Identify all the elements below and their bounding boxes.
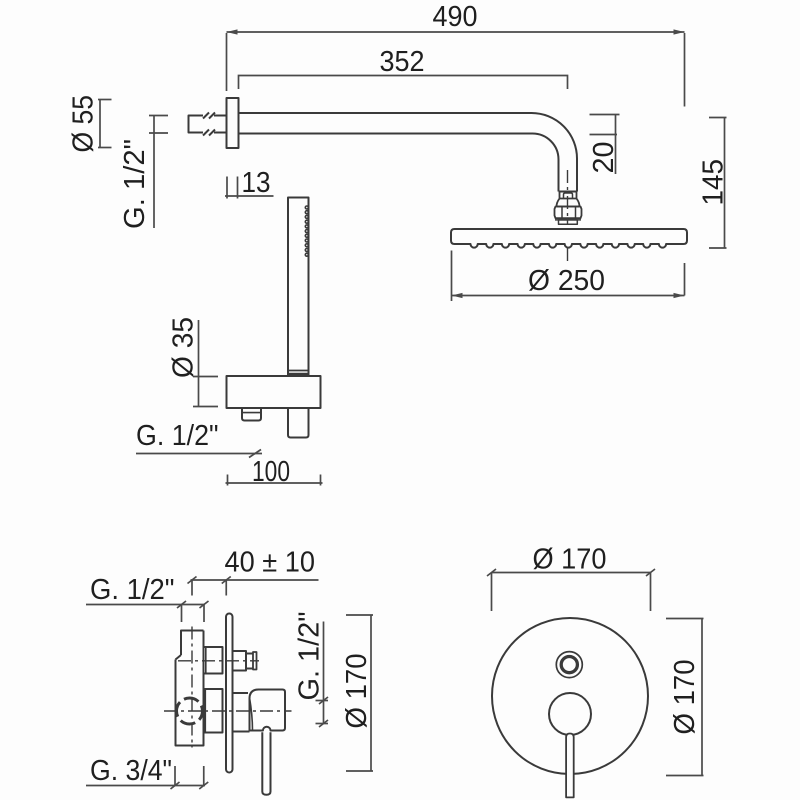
svg-text:Ø 55: Ø 55 bbox=[68, 95, 100, 153]
svg-text:G. 1/2": G. 1/2" bbox=[294, 612, 326, 701]
svg-text:Ø 170: Ø 170 bbox=[341, 654, 373, 729]
svg-text:Ø 250: Ø 250 bbox=[528, 265, 605, 297]
svg-text:G. 1/2": G. 1/2" bbox=[136, 420, 219, 452]
svg-text:490: 490 bbox=[433, 1, 478, 33]
svg-text:G. 1/2": G. 1/2" bbox=[90, 574, 175, 606]
svg-text:13: 13 bbox=[242, 167, 271, 199]
svg-text:Ø 35: Ø 35 bbox=[168, 317, 200, 378]
svg-text:Ø 170: Ø 170 bbox=[669, 660, 701, 735]
svg-text:G. 1/2": G. 1/2" bbox=[119, 139, 151, 229]
svg-text:G. 3/4": G. 3/4" bbox=[90, 755, 172, 787]
svg-text:Ø 170: Ø 170 bbox=[533, 544, 607, 576]
svg-text:145: 145 bbox=[698, 159, 730, 206]
svg-text:40 ± 10: 40 ± 10 bbox=[225, 547, 316, 579]
svg-text:100: 100 bbox=[252, 456, 290, 488]
svg-text:20: 20 bbox=[588, 142, 620, 174]
svg-text:352: 352 bbox=[380, 46, 425, 78]
